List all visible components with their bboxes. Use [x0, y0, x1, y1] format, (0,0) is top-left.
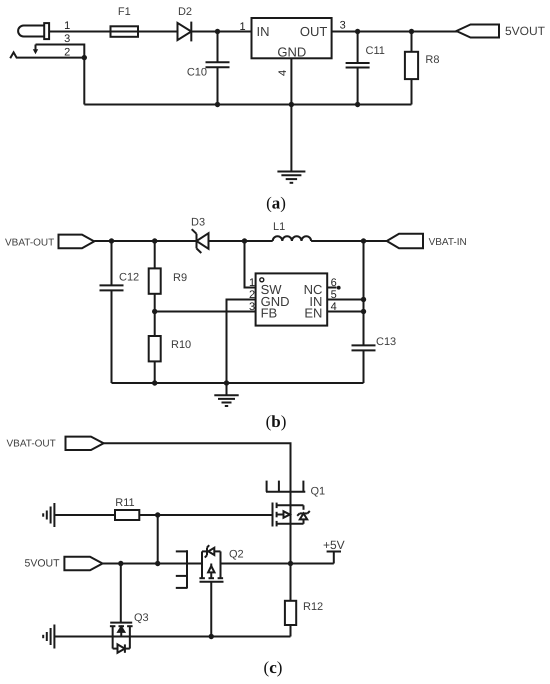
diode D2 — [178, 23, 192, 40]
Q1 source comb — [266, 491, 305, 493]
node C12 tap — [109, 238, 114, 243]
svg-text:IN: IN — [257, 24, 270, 39]
svg-text:5VOUT: 5VOUT — [25, 558, 61, 570]
capacitor C13 — [363, 241, 365, 345]
node Q1 drain/R12 junction — [288, 561, 293, 566]
ground symbol (b) — [226, 383, 228, 395]
node GND/rail junction — [289, 102, 294, 107]
wire NC pin 6 stub — [327, 287, 336, 289]
wire Q1 drain down — [290, 524, 292, 564]
node SW riser junction — [242, 238, 247, 243]
svg-text:VBAT-OUT: VBAT-OUT — [5, 237, 54, 248]
connector tag 5VOUT (a) — [456, 25, 499, 38]
wire GND pin 4 down — [290, 58, 292, 104]
node C13/IN tap — [361, 238, 366, 243]
svg-text:VBAT-IN: VBAT-IN — [429, 237, 467, 248]
ground symbol (a) — [290, 105, 292, 172]
svg-text:EN: EN — [304, 306, 322, 321]
node R10/rail — [152, 380, 157, 385]
svg-text:5VOUT: 5VOUT — [505, 24, 546, 38]
wire IN pin 5 — [327, 299, 363, 301]
svg-text:D2: D2 — [178, 6, 192, 18]
svg-text:3: 3 — [64, 33, 70, 45]
ground symbol left (R11) — [53, 503, 55, 527]
node Q2 gate/rail — [209, 634, 214, 639]
svg-text:1: 1 — [64, 20, 70, 32]
svg-text:+5V: +5V — [323, 538, 345, 552]
jack switch arrow — [35, 45, 37, 50]
capacitor C10 — [217, 32, 219, 63]
wire Q2 gate down — [210, 582, 212, 637]
regulator U (a) box — [252, 18, 332, 58]
svg-text:F1: F1 — [118, 6, 131, 18]
svg-text:R9: R9 — [173, 272, 187, 284]
svg-text:(a): (a) — [266, 194, 286, 213]
wire VBAT-OUT to Q1 — [104, 443, 291, 505]
svg-text:R12: R12 — [303, 601, 323, 613]
resistor R9 — [154, 241, 156, 268]
node Q3 gate tap — [118, 561, 123, 566]
svg-text:D3: D3 — [191, 217, 205, 229]
svg-text:Q2: Q2 — [229, 548, 244, 560]
connector J (barrel jack) body — [18, 26, 44, 37]
wire GND pin 2 to ground riser — [227, 300, 256, 384]
wire Q2 drain to +5V — [221, 563, 334, 565]
wire pin3 (switch contact) — [36, 45, 85, 58]
power flag +5V — [333, 552, 335, 564]
svg-text:4: 4 — [277, 70, 289, 76]
node OUT/C11 junction — [355, 29, 360, 34]
ground rail (b) — [112, 382, 364, 384]
node gnd riser/rail — [224, 380, 229, 385]
svg-text:R10: R10 — [171, 339, 191, 351]
wire D2 to U (a) — [191, 31, 251, 33]
svg-text:GND: GND — [277, 45, 306, 60]
svg-text:1: 1 — [249, 277, 255, 289]
transistor Q3 (NMOS) — [110, 622, 132, 624]
wire 5VOUT line — [103, 563, 203, 565]
fuse F1 — [111, 26, 139, 37]
svg-text:C11: C11 — [366, 45, 385, 57]
wire L1 to VBAT-IN — [311, 240, 387, 242]
svg-text:C13: C13 — [376, 336, 396, 348]
svg-text:3: 3 — [340, 19, 346, 31]
resistor R8 — [411, 32, 413, 52]
node R11/riser junction — [155, 512, 160, 517]
node C11 to rail — [355, 102, 360, 107]
svg-text:OUT: OUT — [300, 24, 328, 39]
Q2 body diode — [202, 550, 207, 552]
wire VBAT-OUT to D3 — [94, 240, 196, 242]
svg-text:VBAT-OUT: VBAT-OUT — [7, 439, 56, 450]
node D2/C10 junction — [215, 29, 220, 34]
wire node to SW pin 1 — [245, 241, 256, 288]
wire D3 to L1 — [209, 240, 273, 242]
node C10 to rail — [215, 102, 220, 107]
wire Q3 gate from 5VOUT line — [120, 564, 122, 623]
svg-text:C10: C10 — [187, 66, 207, 78]
svg-text:R8: R8 — [425, 54, 439, 66]
node R9 tap — [152, 238, 157, 243]
wire R11 to Q1 gate — [139, 514, 272, 516]
transistor Q1 (PMOS) — [272, 503, 274, 527]
wire pin1 jack to F1 — [49, 31, 110, 33]
diode D3 (schottky) — [197, 233, 209, 249]
svg-text:(c): (c) — [264, 658, 283, 677]
svg-text:Q3: Q3 — [134, 612, 149, 624]
svg-text:1: 1 — [239, 21, 245, 33]
Q1 body diode — [303, 505, 305, 510]
Q2 source comb — [186, 550, 188, 588]
node riser tap — [155, 561, 160, 566]
wire F1 to D2 — [138, 31, 178, 33]
connector tag VBAT-IN — [387, 234, 423, 248]
transistor Q2 (PMOS) — [200, 581, 224, 583]
ground symbol left (Q3) — [53, 625, 55, 649]
pin 1 indicator circle — [260, 278, 264, 282]
svg-text:2: 2 — [64, 46, 70, 58]
svg-text:FB: FB — [261, 306, 278, 321]
wire OUT to 5VOUT — [332, 31, 459, 33]
svg-text:Q1: Q1 — [311, 486, 326, 498]
resistor R11 — [115, 510, 139, 520]
inductor L1 — [273, 236, 311, 241]
wire ground to R11 — [54, 514, 115, 516]
resistor R12 — [290, 564, 292, 601]
wire pin2 with sleeve caret — [10, 52, 84, 58]
node R9/R10/FB junction — [152, 309, 157, 314]
capacitor C12 — [111, 241, 113, 285]
wire EN pin 4 — [327, 311, 363, 313]
converter U (b) box — [256, 273, 328, 325]
capacitor C11 — [357, 32, 359, 64]
wire jack down to rail — [83, 58, 85, 105]
resistor R10 — [154, 312, 156, 337]
svg-text:R11: R11 — [115, 497, 134, 509]
svg-text:L1: L1 — [273, 221, 285, 233]
ground rail (a) — [84, 104, 411, 106]
svg-text:C12: C12 — [119, 272, 139, 284]
connector J tip bar — [44, 23, 49, 39]
wire FB pin 3 to divider — [155, 311, 256, 313]
bottom rail (c) — [54, 636, 290, 638]
wire riser down to 5VOUT line — [157, 515, 159, 564]
svg-text:(b): (b) — [266, 412, 287, 431]
junction jack pins 2/3 — [82, 55, 87, 60]
Q3 body diode — [112, 637, 114, 649]
node OUT/R8 junction — [409, 29, 414, 34]
